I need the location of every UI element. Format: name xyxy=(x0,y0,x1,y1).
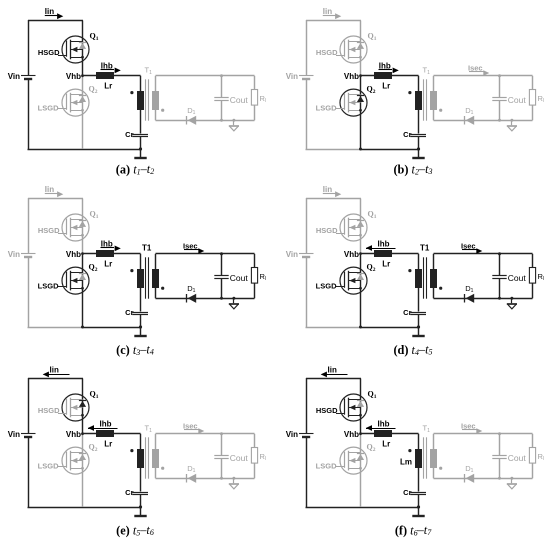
svg-text:Vhb: Vhb xyxy=(66,430,81,439)
svg-text:Cr: Cr xyxy=(125,488,133,497)
svg-text:T1: T1 xyxy=(142,244,152,253)
svg-text:Vin: Vin xyxy=(8,250,20,259)
svg-text:HSGD: HSGD xyxy=(316,226,338,235)
svg-text:Lm: Lm xyxy=(400,458,412,467)
svg-text:HSGD: HSGD xyxy=(316,48,338,57)
svg-text:(d) t4–t5: (d) t4–t5 xyxy=(393,343,432,357)
svg-text:LSGD: LSGD xyxy=(38,461,59,470)
svg-text:Iin: Iin xyxy=(323,7,332,16)
svg-text:HSGD: HSGD xyxy=(38,226,60,235)
svg-text:Cout: Cout xyxy=(230,273,249,283)
svg-text:HSGD: HSGD xyxy=(38,406,60,415)
svg-text:Vhb: Vhb xyxy=(66,72,81,81)
svg-text:(f) t6–t7: (f) t6–t7 xyxy=(395,523,432,537)
svg-text:(c) t3–t4: (c) t3–t4 xyxy=(116,343,154,357)
svg-text:Cout: Cout xyxy=(508,273,527,283)
svg-text:(b) t2–t3: (b) t2–t3 xyxy=(393,162,432,176)
svg-text:T1: T1 xyxy=(420,244,430,253)
svg-text:Vin: Vin xyxy=(8,430,20,439)
svg-text:Lr: Lr xyxy=(104,81,112,90)
svg-text:Cout: Cout xyxy=(230,453,249,463)
svg-text:HSGD: HSGD xyxy=(38,48,60,57)
svg-text:Vhb: Vhb xyxy=(66,250,81,259)
svg-text:Vhb: Vhb xyxy=(344,72,359,81)
svg-text:LSGD: LSGD xyxy=(316,461,337,470)
svg-text:Lr: Lr xyxy=(382,259,390,268)
svg-text:Cout: Cout xyxy=(508,453,527,463)
svg-text:Vhb: Vhb xyxy=(344,430,359,439)
svg-text:Cr: Cr xyxy=(403,130,411,139)
svg-text:(e) t5–t6: (e) t5–t6 xyxy=(116,523,154,537)
svg-text:Iin: Iin xyxy=(328,365,337,374)
svg-text:Lr: Lr xyxy=(104,439,112,448)
svg-text:Lr: Lr xyxy=(382,81,390,90)
svg-text:LSGD: LSGD xyxy=(316,103,337,112)
svg-text:Ihb: Ihb xyxy=(378,420,390,429)
svg-text:HSGD: HSGD xyxy=(316,406,338,415)
svg-text:(a) t1–t2: (a) t1–t2 xyxy=(116,162,154,176)
svg-text:Iin: Iin xyxy=(323,185,332,194)
svg-text:Cr: Cr xyxy=(125,308,133,317)
svg-text:Ihb: Ihb xyxy=(100,420,112,429)
svg-text:Cout: Cout xyxy=(508,95,527,105)
svg-text:Cr: Cr xyxy=(125,130,133,139)
svg-text:Lr: Lr xyxy=(104,259,112,268)
svg-text:Vin: Vin xyxy=(8,72,20,81)
svg-text:Vin: Vin xyxy=(286,430,298,439)
svg-text:Vin: Vin xyxy=(286,250,298,259)
svg-text:LSGD: LSGD xyxy=(316,281,337,290)
svg-text:Iin: Iin xyxy=(45,185,54,194)
svg-text:Cout: Cout xyxy=(230,95,249,105)
svg-text:Vhb: Vhb xyxy=(344,250,359,259)
svg-text:Iin: Iin xyxy=(50,365,59,374)
svg-text:Cr: Cr xyxy=(403,488,411,497)
svg-text:Ihb: Ihb xyxy=(378,240,390,249)
svg-text:Vin: Vin xyxy=(286,72,298,81)
svg-text:LSGD: LSGD xyxy=(38,281,59,290)
svg-text:Iin: Iin xyxy=(45,7,54,16)
svg-text:Cr: Cr xyxy=(403,308,411,317)
svg-text:Lr: Lr xyxy=(382,439,390,448)
svg-text:LSGD: LSGD xyxy=(38,103,59,112)
